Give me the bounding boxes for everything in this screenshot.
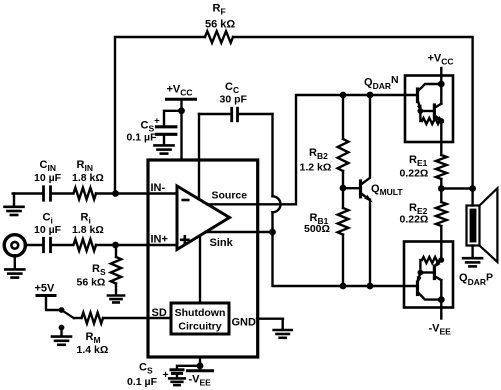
svg-text:500Ω: 500Ω bbox=[304, 223, 330, 235]
svg-text:Source: Source bbox=[212, 190, 248, 202]
svg-text:+: + bbox=[163, 369, 169, 381]
svg-text:1.8 kΩ: 1.8 kΩ bbox=[72, 172, 104, 184]
svg-text:Circuitry: Circuitry bbox=[178, 321, 221, 333]
svg-text:56 kΩ: 56 kΩ bbox=[205, 19, 235, 31]
svg-text:IN-: IN- bbox=[151, 182, 166, 194]
svg-text:IN+: IN+ bbox=[151, 234, 168, 246]
svg-text:1.8 kΩ: 1.8 kΩ bbox=[72, 224, 104, 236]
svg-text:10 µF: 10 µF bbox=[34, 172, 62, 184]
svg-text:0.1 µF: 0.1 µF bbox=[127, 132, 158, 144]
svg-text:Shutdown: Shutdown bbox=[175, 307, 226, 319]
svg-text:0.22Ω: 0.22Ω bbox=[400, 214, 429, 226]
svg-text:SD: SD bbox=[152, 307, 167, 319]
svg-text:10 µF: 10 µF bbox=[34, 224, 62, 236]
svg-text:0.22Ω: 0.22Ω bbox=[400, 168, 429, 180]
svg-text:0.1 µF: 0.1 µF bbox=[127, 376, 158, 388]
svg-text:GND: GND bbox=[232, 317, 257, 329]
svg-text:30 pF: 30 pF bbox=[220, 94, 248, 106]
svg-text:56 kΩ: 56 kΩ bbox=[77, 277, 106, 289]
svg-text:1.4 kΩ: 1.4 kΩ bbox=[77, 344, 109, 356]
svg-text:Sink: Sink bbox=[210, 237, 234, 249]
svg-text:+5V: +5V bbox=[35, 283, 56, 295]
svg-text:1.2 kΩ: 1.2 kΩ bbox=[300, 162, 332, 174]
